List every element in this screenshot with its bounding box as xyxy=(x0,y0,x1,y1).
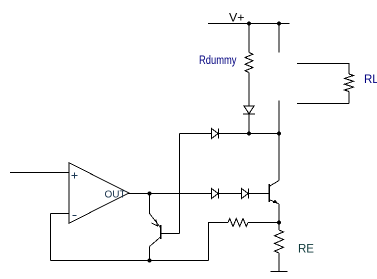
transistor Q2 emitter arrow xyxy=(273,200,278,204)
transistor Q2 collector wire xyxy=(278,134,280,181)
wire Q1 base vertical xyxy=(179,134,181,234)
wire emitter node to RE xyxy=(278,223,280,231)
wire noninverting input xyxy=(10,172,69,174)
svg-text:RE: RE xyxy=(298,244,314,256)
diode D3 (right) xyxy=(212,189,219,199)
op-amp U1 xyxy=(69,163,129,223)
wire D4 to Q2 base xyxy=(249,193,270,195)
svg-text:Rdummy: Rdummy xyxy=(199,55,237,67)
junction emitter node xyxy=(277,221,281,225)
diode D4 (right) xyxy=(242,189,249,199)
wire open stub down to middle node xyxy=(278,101,280,134)
junction on V+ rail at Rdummy branch xyxy=(247,22,251,26)
wire output node down to Q1 emitter xyxy=(149,194,151,214)
resistor Rdummy xyxy=(245,53,253,73)
wire feedback left vertical xyxy=(50,214,52,261)
ground xyxy=(271,271,288,273)
svg-text:V+: V+ xyxy=(229,11,245,25)
junction middle row at Rdummy branch xyxy=(247,132,251,136)
wire D2 cathode to right column xyxy=(219,133,280,135)
wire D1 to node row xyxy=(248,114,250,134)
wire resistor to emitter node xyxy=(248,222,279,224)
resistor RE xyxy=(275,230,284,253)
wire Q2 emitter xyxy=(278,204,280,223)
svg-text:RL: RL xyxy=(364,74,377,86)
load stub bottom xyxy=(297,92,349,104)
svg-text:OUT: OUT xyxy=(105,190,126,201)
transistor Q1 emitter arrow xyxy=(152,220,158,226)
junction bottom rail xyxy=(148,259,152,263)
wire middle row y=133 xyxy=(180,133,212,135)
op-amp minus input mark xyxy=(73,215,77,217)
diode D2 (right) xyxy=(212,129,219,139)
junction output node xyxy=(148,192,152,196)
wire Q1 collector xyxy=(149,247,151,261)
op-amp plus input mark xyxy=(72,173,78,179)
transistor Q1 (PNP) xyxy=(160,225,162,239)
transistor Q2 xyxy=(268,184,270,202)
wire open stub from right rail junction xyxy=(278,24,280,53)
diode D1 (down) xyxy=(244,106,254,114)
wire top V+ rail xyxy=(208,23,290,25)
wire Q1 base horizontal xyxy=(161,233,180,235)
junction on V+ rail at right branch xyxy=(277,22,281,26)
wire V+ rail to Rdummy xyxy=(248,24,250,53)
resistor RL xyxy=(345,74,354,92)
wire resistor row left corner xyxy=(209,223,229,261)
resistor R (horizontal) xyxy=(228,219,248,227)
junction middle row at right column xyxy=(277,132,281,136)
wire feedback bottom rail xyxy=(51,260,209,262)
wire RE to ground xyxy=(278,253,280,272)
load stub top xyxy=(297,64,349,75)
wire to inverting input xyxy=(51,213,70,215)
wire Rdummy to diode D1 xyxy=(248,73,250,107)
wire D3 to D4 xyxy=(219,193,242,195)
wire output row xyxy=(128,193,212,195)
